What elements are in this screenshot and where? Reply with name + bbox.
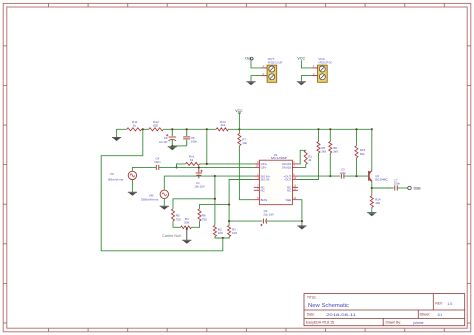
pin 3 GN ADJ of U1 xyxy=(292,166,298,168)
resistor R5b 3k9 load xyxy=(318,129,320,141)
net port DSB xyxy=(408,186,411,189)
potentiometer R4 50K carrier null xyxy=(181,226,192,229)
junction R3 top to C2 line xyxy=(228,220,230,222)
wire VCC to P2 pin1 xyxy=(301,60,311,68)
junction VEE ground node xyxy=(301,220,303,222)
junction C6-C5 ground node xyxy=(171,145,173,147)
wire VM to SIG IN+ line xyxy=(164,176,254,190)
connector P1 OUT KF301-5.0-2P xyxy=(261,65,277,82)
pin 12 -OUT of U1 xyxy=(292,179,298,181)
svg-text:TITLE:: TITLE: xyxy=(307,296,317,300)
pin 1 SIG IN+ of U1 xyxy=(254,175,260,177)
svg-text:BIAS: BIAS xyxy=(261,198,268,202)
svg-text:100: 100 xyxy=(218,231,223,235)
wire VEE pin14 to ground node xyxy=(298,200,302,226)
transistor Q1 BC548C xyxy=(369,170,372,181)
svg-text:Carrier Null: Carrier Null xyxy=(162,234,181,238)
ground at carrier null wiper xyxy=(182,239,191,242)
svg-text:GN ADJ: GN ADJ xyxy=(282,166,292,170)
capacitor C3 100n xyxy=(340,174,342,179)
wire rail branch down to Rn1 xyxy=(206,129,208,164)
wire Rn1 left stub down to CIN- line xyxy=(177,164,186,168)
wire R6 to potentiometer right xyxy=(191,221,199,227)
svg-text:100: 100 xyxy=(375,201,380,205)
junction rail-VCC-R7 xyxy=(238,128,240,130)
wire rail R12-R13 xyxy=(163,128,216,130)
svg-text:1k: 1k xyxy=(133,123,137,127)
ground at OUT connector xyxy=(246,80,255,83)
resistor R12 820 xyxy=(149,128,164,131)
junction rail-R5 xyxy=(317,128,319,130)
wire SIG IN- from divider to IC pin 4 xyxy=(229,180,254,205)
ground at R14 xyxy=(367,211,376,214)
junction R15 base node xyxy=(355,175,357,177)
svg-text:80mVrms: 80mVrms xyxy=(108,177,124,181)
pin 10 CIN- of U1 xyxy=(254,166,260,168)
wire C3 to Q1 base xyxy=(344,175,369,177)
pin 5 BIAS of U1 xyxy=(254,199,260,201)
pin 6 +OUT of U1 xyxy=(292,175,298,177)
svg-text:julome: julome xyxy=(413,321,424,325)
svg-text:100n: 100n xyxy=(154,160,161,164)
wire R15 to base node xyxy=(356,158,358,176)
junction rail corner to Q1 collector xyxy=(371,128,373,130)
wire R7 to BIAS pin 5 xyxy=(239,146,253,200)
wire R14 to ground xyxy=(371,207,373,212)
svg-text:14: 14 xyxy=(293,196,296,200)
capacitor C5 100n xyxy=(186,129,188,136)
capacitor C4 100n xyxy=(155,165,157,170)
resistor R2 100 xyxy=(213,225,216,236)
ground at VEE xyxy=(297,225,306,228)
wire VCC symbol to rail xyxy=(238,113,240,129)
ground at VCC connector xyxy=(297,80,306,83)
svg-text:300mVrms: 300mVrms xyxy=(141,198,159,202)
svg-text:New Schematic: New Schematic xyxy=(308,303,349,309)
wire C4 right to IC pin 10 CIN- xyxy=(159,166,254,168)
svg-text:51: 51 xyxy=(190,158,194,162)
capacitor C7 100n xyxy=(394,186,396,191)
svg-text:KF301-5.0-2P: KF301-5.0-2P xyxy=(268,60,283,64)
svg-text:2018-08-11: 2018-08-11 xyxy=(326,313,356,317)
junction rail-R11R12 loop xyxy=(142,128,144,130)
svg-text:750: 750 xyxy=(176,217,181,221)
wire +OUT pin6 to C3 xyxy=(298,175,340,177)
wire Out to P1 pin1 xyxy=(251,60,261,68)
source VC 80mVrms xyxy=(128,171,136,179)
svg-text:MC1496P: MC1496P xyxy=(271,156,287,160)
wire return loop to R11-R12 node xyxy=(101,129,223,251)
junction rail-C6 xyxy=(171,128,173,130)
resistor R13 1k2 xyxy=(216,128,228,131)
resistor R1 1k xyxy=(304,150,307,164)
wire P1 pin2 to ground xyxy=(251,76,261,82)
svg-text:REV:: REV: xyxy=(435,302,442,306)
svg-text:820: 820 xyxy=(153,123,158,127)
ground at rail left xyxy=(112,136,121,139)
wire divider vertical pin1 side xyxy=(214,176,216,225)
svg-text:100: 100 xyxy=(232,231,237,235)
op-amp U1 MC1496P xyxy=(259,160,292,205)
wire R5 to potentiometer left xyxy=(173,221,181,227)
svg-text:NC: NC xyxy=(261,189,265,193)
wire rail left segment to R11 xyxy=(117,129,127,137)
junction R8 +OUT xyxy=(329,175,331,177)
wire GN ADJ pin2 hook xyxy=(298,150,306,164)
svg-text:750: 750 xyxy=(202,217,207,221)
wire C5 to ground node xyxy=(172,145,186,147)
junction CIN- stub xyxy=(175,166,177,168)
junction R6 node at divider xyxy=(228,204,230,206)
svg-text:BC548C: BC548C xyxy=(375,178,388,182)
svg-text:3k9: 3k9 xyxy=(321,149,326,153)
source VM 300mVrms xyxy=(160,190,168,198)
svg-text:DSB: DSB xyxy=(414,187,422,191)
resistor Rn1 51 xyxy=(186,162,200,165)
pin 9 NC of U1 xyxy=(254,189,260,191)
svg-text:-OUT: -OUT xyxy=(284,178,291,182)
svg-text:KF301-2P-DC: KF301-2P-DC xyxy=(318,60,332,64)
resistor R14 100 xyxy=(370,196,373,208)
junction Rn1-right xyxy=(206,163,208,165)
svg-text:100n: 100n xyxy=(340,171,347,175)
svg-text:Drawn By:: Drawn By: xyxy=(386,321,402,325)
svg-text:12: 12 xyxy=(293,176,296,180)
pin 8 CIN+ of U1 xyxy=(254,163,260,165)
pin 14 VEE of U1 xyxy=(292,199,298,201)
wire VC to ground xyxy=(131,180,133,192)
capacitor C2 22u 16V xyxy=(262,219,264,224)
wire emitter to C7 xyxy=(372,187,394,189)
wire rail R13 to corner above Q1 xyxy=(228,128,371,130)
svg-text:Sheet:: Sheet: xyxy=(420,313,431,317)
wire R5 bias node xyxy=(173,199,215,209)
pin 2 GN ADJ of U1 xyxy=(292,163,298,165)
connector P2 VCC KF301-2P-DC xyxy=(311,65,327,82)
svg-text:22u 16V: 22u 16V xyxy=(159,140,168,144)
svg-text:22u 16V: 22u 16V xyxy=(263,212,274,216)
svg-text:1/1: 1/1 xyxy=(437,313,442,317)
svg-text:1k2: 1k2 xyxy=(220,123,225,127)
svg-text:EasyEDA V5.8.15: EasyEDA V5.8.15 xyxy=(306,321,334,325)
wire R6 bias node xyxy=(200,205,230,209)
svg-text:CIN-: CIN- xyxy=(261,166,267,170)
resistor R5 750 xyxy=(171,209,174,221)
junction bias node at divider xyxy=(214,198,216,200)
pin 7 NC of U1 xyxy=(254,186,260,188)
wire C2 line to R3 node xyxy=(229,220,262,222)
junction rail-C5 xyxy=(186,128,188,130)
svg-text:VCC: VCC xyxy=(297,56,305,60)
capacitor C6 22u 16V xyxy=(171,129,173,136)
wire R1 bottom to pin3 xyxy=(298,164,306,167)
wire VM to ground xyxy=(163,199,165,206)
svg-text:50K: 50K xyxy=(184,220,189,224)
wire CIN+ line from Rn1 to IC pin 8 xyxy=(200,163,254,165)
wire rail corner down to Q1 collector xyxy=(371,129,373,170)
wire P2 pin2 to ground xyxy=(301,76,311,82)
svg-text:NC: NC xyxy=(287,189,291,193)
pin 4 SIG IN- of U1 xyxy=(254,179,260,181)
wire R8 load to +OUT line xyxy=(329,153,331,176)
svg-text:SIG IN-: SIG IN- xyxy=(261,178,271,182)
resistor R3 100 xyxy=(228,205,230,226)
wire R5 load to -OUT pin 12 xyxy=(298,153,319,180)
wire C4 left to VC xyxy=(132,167,156,171)
svg-text:10u 16V: 10u 16V xyxy=(194,184,205,188)
svg-text:100n: 100n xyxy=(394,182,401,186)
svg-text:100n: 100n xyxy=(191,139,198,143)
wire rail R11-R12 xyxy=(142,128,149,130)
resistor R15 82k xyxy=(356,129,358,146)
junction SIG IN+ divider xyxy=(214,175,216,177)
svg-text:3k9: 3k9 xyxy=(333,149,338,153)
wire C2 to VEE ground node xyxy=(266,220,302,222)
resistor R7 10k xyxy=(238,129,240,133)
junction rail-R8 xyxy=(329,128,331,130)
junction rail-Rn1 branch xyxy=(206,128,208,130)
junction emitter node xyxy=(371,187,373,189)
svg-text:82k: 82k xyxy=(360,152,365,156)
pin 13 NC of U1 xyxy=(292,186,298,188)
ground at VC xyxy=(128,191,137,194)
ground at C6 xyxy=(171,145,173,147)
svg-text:10: 10 xyxy=(256,164,259,168)
capacitor C1 10u 16V xyxy=(198,167,200,172)
wire R2 R3 bottom join xyxy=(215,237,229,239)
svg-text:1.0: 1.0 xyxy=(447,302,452,306)
pin 11 NC of U1 xyxy=(292,189,298,191)
wire C7 to DSB port xyxy=(397,187,407,189)
resistor R11 1k xyxy=(127,128,142,131)
svg-text:VEE: VEE xyxy=(285,198,291,202)
resistor R6 750 xyxy=(198,209,201,221)
resistor R8 3k9 load xyxy=(329,129,331,141)
svg-text:Date:: Date: xyxy=(307,313,315,317)
ground at VM xyxy=(160,205,169,208)
svg-text:10k: 10k xyxy=(242,141,247,145)
junction C1 top on CIN- line xyxy=(198,166,200,168)
junction rail-R15 xyxy=(355,128,357,130)
junction R2R3 bottom xyxy=(222,237,224,239)
wire Q1 emitter down xyxy=(371,181,373,196)
